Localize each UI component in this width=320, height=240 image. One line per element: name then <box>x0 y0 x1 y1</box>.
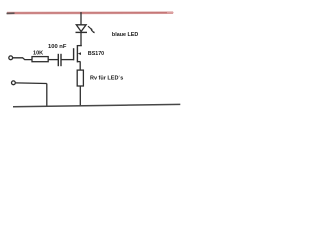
transistor BS170 channel bar <box>76 45 78 62</box>
terminal input 1 (circle) <box>9 56 13 60</box>
wire: LED anode to red rail <box>80 12 82 25</box>
ground wire net 0V (bottom) <box>13 104 180 106</box>
wire: resistor 10K to capacitor <box>48 59 58 61</box>
transistor BS170 drain stub <box>77 45 81 47</box>
LED cathode bar <box>76 31 88 33</box>
capacitor C1 100nF right plate <box>60 54 62 66</box>
svg-text:blaue LED: blaue LED <box>112 32 138 38</box>
power rail net V+ (red line core) <box>7 12 173 14</box>
svg-text:10K: 10K <box>33 51 44 57</box>
power rail left gray tip <box>7 12 15 14</box>
resistor Rv (vertical box) <box>77 70 83 86</box>
wire: Rv resistor to ground wire <box>79 86 81 106</box>
wire: MOSFET source down to Rv resistor <box>79 62 81 71</box>
transistor BS170 body arrow <box>78 52 81 55</box>
LED blaue LED (diode triangle) <box>76 25 86 32</box>
wire: capacitor to MOSFET gate <box>61 59 74 61</box>
LED emission arrow 1 <box>88 26 93 30</box>
terminal input 2 (circle) <box>12 81 16 85</box>
svg-text:Rv für LED´s: Rv für LED´s <box>90 75 123 81</box>
wire: LED cathode to MOSFET drain <box>80 32 82 46</box>
wire: terminal 2 horizontal <box>15 82 46 85</box>
svg-text:BS170: BS170 <box>88 51 104 57</box>
wire: terminal 1 to resistor 10K <box>13 58 33 60</box>
capacitor C1 100nF left plate <box>57 54 59 66</box>
wire: terminal 2 down to ground wire <box>46 84 48 107</box>
transistor BS170 gate bar <box>73 48 75 60</box>
power rail net V+ (red line, soft halo) <box>7 11 173 14</box>
power rail right faded tip <box>167 12 174 14</box>
resistor R1 10K (box) <box>32 57 48 62</box>
transistor BS170 source stub <box>77 61 80 63</box>
svg-text:100 nF: 100 nF <box>48 44 67 50</box>
LED emission arrow 2 <box>91 30 95 33</box>
